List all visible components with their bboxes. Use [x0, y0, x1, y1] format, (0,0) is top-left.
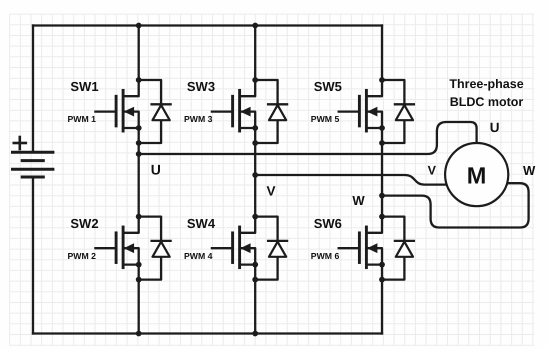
wire top DC bus: [33, 24, 382, 26]
svg-text:BLDC motor: BLDC motor: [450, 95, 524, 109]
transistor SW3 (N-MOSFET): [212, 80, 255, 131]
junction: SW6 source node: [379, 262, 385, 268]
junction: SW1 drain node: [136, 77, 142, 83]
wire leg 3 lower source to bottom bus: [381, 265, 383, 334]
wire leg 1 upper drain (bus to SW1): [138, 26, 140, 81]
junction: SW3 diode anode tie: [252, 140, 258, 146]
svg-text:Three-phase: Three-phase: [449, 77, 523, 91]
junction: SW2 diode anode tie: [136, 277, 142, 283]
svg-text:PWM 4: PWM 4: [184, 251, 213, 261]
wire leg 3 upper drain (bus to SW5): [381, 26, 383, 81]
svg-text:SW2: SW2: [70, 216, 98, 231]
body diode of SW4: [255, 217, 287, 280]
junction: SW4 drain node: [252, 214, 258, 220]
svg-text:PWM 6: PWM 6: [311, 251, 340, 261]
body diode of SW1: [139, 80, 171, 143]
svg-text:SW4: SW4: [187, 216, 216, 231]
svg-text:U: U: [490, 120, 500, 135]
transistor SW1 (N-MOSFET): [95, 80, 138, 131]
junction: SW2 source node: [136, 262, 142, 268]
svg-text:PWM 5: PWM 5: [311, 114, 340, 124]
battery BT1: [13, 26, 53, 334]
wire leg 2 upper drain (bus to SW3): [254, 26, 256, 81]
junction: SW6 drain node: [379, 214, 385, 220]
body diode of SW3: [255, 80, 287, 143]
svg-text:V: V: [267, 183, 276, 198]
node U (leg 1 output): [136, 151, 142, 157]
junction: SW1 diode anode tie: [136, 140, 142, 146]
junction: SW2 drain node: [136, 214, 142, 220]
transistor SW6 (N-MOSFET): [339, 217, 382, 268]
junction: SW5 source node: [379, 125, 385, 131]
wire leg 2 lower source to bottom bus: [254, 265, 256, 334]
junction: SW3 drain node: [252, 77, 258, 83]
svg-text:W: W: [352, 193, 365, 208]
junction: SW5 drain node: [379, 77, 385, 83]
svg-text:SW6: SW6: [314, 216, 342, 231]
wire phase W (leg 3 midpoint, routed under motor to right terminal): [382, 183, 529, 227]
wire bottom DC bus: [33, 332, 382, 334]
junction: SW4 source node: [252, 262, 258, 268]
annotation: motor type: [449, 77, 523, 109]
junction: SW6 diode anode tie: [379, 277, 385, 283]
junction: bottom bus / leg 2: [252, 331, 258, 337]
svg-text:SW5: SW5: [314, 79, 342, 94]
junction: top bus / leg 1: [136, 23, 142, 29]
node W (leg 3 output): [379, 193, 385, 199]
svg-text:W: W: [523, 163, 536, 178]
svg-text:SW3: SW3: [187, 79, 215, 94]
junction: SW1 source node: [136, 125, 142, 131]
junction: SW4 diode anode tie: [252, 277, 258, 283]
svg-text:PWM 1: PWM 1: [68, 114, 97, 124]
node V (leg 2 output): [252, 172, 258, 178]
junction: SW5 diode anode tie: [379, 140, 385, 146]
body diode of SW2: [139, 217, 171, 280]
svg-text:V: V: [428, 163, 437, 177]
svg-text:PWM 2: PWM 2: [68, 251, 97, 261]
junction: top bus / leg 2: [252, 23, 258, 29]
svg-text:SW1: SW1: [70, 79, 98, 94]
transistor SW2 (N-MOSFET): [95, 217, 138, 268]
junction: bottom bus / leg 1: [136, 331, 142, 337]
svg-text:M: M: [467, 162, 487, 188]
wire leg 3 midpoint (source of SW5 to drain of SW6): [381, 128, 383, 217]
wire phase U (leg 1 midpoint to motor top terminal): [139, 122, 477, 154]
wire phase V (leg 2 midpoint to motor left terminal): [255, 175, 447, 185]
transistor SW4 (N-MOSFET): [212, 217, 255, 268]
body diode of SW5: [382, 80, 414, 143]
wire leg 1 lower source to bottom bus: [138, 265, 140, 334]
motor M1 (BLDC): [445, 143, 508, 206]
svg-text:PWM 3: PWM 3: [184, 114, 213, 124]
junction: SW3 source node: [252, 125, 258, 131]
wire leg 1 midpoint (source of SW1 to drain of SW2): [138, 128, 140, 217]
svg-text:U: U: [151, 162, 161, 178]
body diode of SW6: [382, 217, 414, 280]
transistor SW5 (N-MOSFET): [339, 80, 382, 131]
wire leg 2 midpoint (source of SW3 to drain of SW4): [254, 128, 256, 217]
